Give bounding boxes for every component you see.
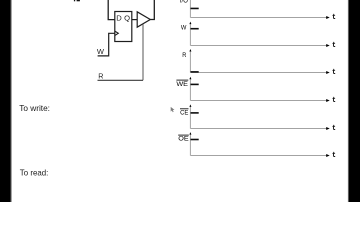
t arrowhead IO (326, 16, 330, 19)
signal R low (191, 71, 199, 73)
left letterbox bar (0, 0, 11, 202)
t label OE (332, 152, 335, 157)
tri-state buffer U2 (137, 12, 150, 27)
axis vertical IO (189, 0, 191, 18)
axis up arrowhead W (189, 22, 191, 25)
axis up arrowhead CE (189, 104, 191, 107)
axis up arrowhead OE (189, 132, 191, 135)
svg-text:I/O: I/O (180, 0, 188, 5)
t arrowhead WE (326, 99, 330, 102)
axis vertical WE (189, 78, 191, 101)
clock input wedge (115, 31, 119, 35)
axis horizontal WE (190, 100, 326, 102)
axis vertical CE (189, 106, 191, 129)
axis horizontal W (190, 45, 326, 47)
axis vertical W (189, 23, 191, 46)
t label R (332, 69, 335, 74)
wire buffer enable down (142, 24, 144, 80)
axis vertical R (189, 50, 191, 73)
svg-text:R: R (182, 52, 186, 59)
mouse cursor (171, 107, 175, 112)
svg-text:D: D (116, 14, 122, 23)
signal WE high (191, 83, 199, 85)
right letterbox bar (347, 0, 350, 202)
cut-off text fragment top-left (74, 0, 75, 1)
svg-text:W: W (181, 24, 187, 31)
wire buffer output up to top edge (150, 0, 154, 20)
axis up arrowhead R (189, 49, 191, 52)
t arrowhead R (326, 71, 330, 74)
wire R to buffer enable (98, 79, 144, 81)
axis horizontal OE (190, 155, 326, 157)
svg-text:WE: WE (176, 81, 188, 88)
axis up arrowhead WE (189, 77, 191, 80)
axis vertical OE (189, 133, 191, 155)
signal W high (191, 28, 199, 30)
t label W (332, 42, 335, 47)
t arrowhead OE (326, 154, 330, 157)
svg-text:CE: CE (180, 110, 188, 117)
t arrowhead W (326, 44, 330, 47)
svg-text:To write:: To write: (19, 103, 50, 113)
t label IO (332, 14, 335, 19)
svg-text:To read:: To read: (20, 167, 49, 177)
signal CE high (191, 112, 199, 114)
svg-text:R: R (98, 71, 103, 80)
svg-text:Q: Q (124, 14, 130, 23)
signal OE high (191, 139, 199, 141)
wire Q to buffer (132, 19, 137, 21)
wire W to clock pin (98, 33, 115, 56)
t label CE (332, 125, 335, 130)
axis horizontal CE (190, 128, 326, 130)
signal IO (mid level) (191, 7, 199, 9)
axis horizontal R (190, 72, 326, 74)
t arrowhead CE (326, 127, 330, 130)
svg-text:OE: OE (178, 136, 188, 143)
t label WE (332, 97, 335, 102)
axis horizontal IO (190, 17, 326, 19)
wire: data input into D (vertical from top edge) (108, 0, 115, 20)
svg-text:W: W (97, 47, 105, 56)
D latch U1 box (115, 12, 132, 42)
